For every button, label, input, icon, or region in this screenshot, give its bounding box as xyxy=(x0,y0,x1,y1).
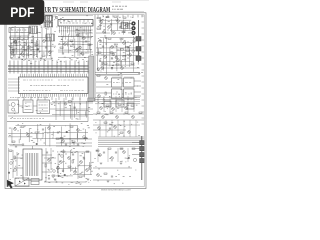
IC U1 shield box xyxy=(9,28,31,33)
resistor R21 xyxy=(123,56,126,57)
capacitor C7 xyxy=(102,46,104,47)
wire xyxy=(42,154,52,156)
junction xyxy=(48,16,49,17)
transistor Q35 xyxy=(14,128,17,131)
label U8 xyxy=(125,82,131,84)
resistor R63 xyxy=(108,148,111,149)
wire xyxy=(122,93,124,95)
junction xyxy=(106,44,107,45)
transistor Q27 xyxy=(76,49,79,52)
transistor Q50 xyxy=(98,127,101,130)
plug P1 xyxy=(136,37,141,42)
component labels xyxy=(45,151,61,182)
wire xyxy=(14,167,23,169)
junction xyxy=(108,30,109,31)
junction xyxy=(86,53,87,54)
wire section divider xyxy=(7,121,88,123)
junction xyxy=(57,66,58,67)
capacitor C6 xyxy=(119,27,121,28)
junction xyxy=(128,99,129,100)
wire row xyxy=(95,74,140,76)
bridge diode mark xyxy=(19,181,21,183)
resistor R25 xyxy=(24,50,27,51)
resistor R12 xyxy=(120,38,123,39)
junction xyxy=(83,44,84,45)
wire center drop xyxy=(63,98,65,120)
resistor R29 xyxy=(70,40,73,41)
wire vertical trunk xyxy=(94,15,96,101)
resistor R57 xyxy=(110,112,113,113)
transistor Q6 xyxy=(103,31,106,34)
wire vertical runs left xyxy=(11,28,52,58)
capacitor C32 xyxy=(48,178,50,179)
label U3 row1 xyxy=(23,79,53,81)
wire psu row xyxy=(44,157,56,159)
transistor Q14 xyxy=(129,54,132,57)
transistor Q55 xyxy=(123,151,126,154)
transistor Q33 xyxy=(125,107,128,110)
resistor R14 xyxy=(98,52,101,53)
transistor Q54 xyxy=(111,157,114,160)
IC U3 jungle / micom xyxy=(19,77,89,94)
wire xyxy=(8,115,88,117)
transistor Q16 xyxy=(121,67,124,70)
transistor Q1 xyxy=(14,40,17,43)
wire control bus xyxy=(8,65,91,71)
resistor R39 xyxy=(21,126,24,127)
wire xyxy=(58,15,93,17)
transistor Q44 xyxy=(74,171,77,174)
wire xyxy=(93,113,144,115)
transistor Q25 xyxy=(79,46,82,49)
transistor Q19 xyxy=(112,53,115,56)
inductor L1 xyxy=(46,14,52,17)
AV jack J5 xyxy=(131,31,135,35)
wire U3 bottom drops xyxy=(24,97,80,101)
capacitor C34 xyxy=(65,144,67,145)
junction xyxy=(31,66,32,67)
transistor Q17 xyxy=(115,56,118,59)
wire xyxy=(44,181,86,183)
wire xyxy=(32,146,34,149)
section caption xyxy=(10,97,50,99)
fuse F1 xyxy=(31,179,39,185)
wire xyxy=(132,148,140,150)
resistor R62 xyxy=(96,150,99,151)
wire frame-top stubs xyxy=(98,15,142,18)
transformer T1 core xyxy=(23,149,42,180)
resistor R10 xyxy=(122,32,125,33)
resistor R53 xyxy=(68,166,71,167)
resistor R37 xyxy=(131,105,134,106)
capacitor C40 xyxy=(109,128,111,129)
junction xyxy=(22,66,23,67)
wire xyxy=(134,80,141,82)
capacitor C9 xyxy=(127,47,129,48)
diode D8 xyxy=(58,175,60,177)
wire video drops xyxy=(98,96,134,112)
resistor R11 xyxy=(108,38,111,39)
capacitor C20 xyxy=(72,44,74,45)
relay K1 xyxy=(8,100,19,113)
resistor R33 xyxy=(97,75,100,76)
junction xyxy=(84,176,85,177)
connector J1 xyxy=(29,26,38,34)
junction xyxy=(128,42,129,43)
capacitor C38 xyxy=(83,158,85,159)
capacitor C37 xyxy=(62,170,64,171)
capacitor C18 xyxy=(12,52,14,53)
transistor Q42 xyxy=(68,157,71,160)
transistor Q47 xyxy=(102,116,105,119)
transistor Q51 xyxy=(114,126,117,129)
component labels xyxy=(95,114,140,136)
transistor Q7 xyxy=(113,32,116,35)
junction xyxy=(53,138,54,139)
junction xyxy=(12,55,13,56)
IC U2 IF amplifier xyxy=(58,20,93,27)
component labels xyxy=(57,149,94,183)
wire hv row xyxy=(56,142,92,144)
U3 bottom pin row xyxy=(21,94,87,97)
wire mid drop xyxy=(87,32,89,54)
transistor Q37 xyxy=(48,127,51,130)
transistor Q18 xyxy=(97,68,100,71)
junction xyxy=(104,99,105,100)
bridge diagonal xyxy=(15,178,29,186)
junction xyxy=(39,66,40,67)
resistor R27 xyxy=(10,46,13,47)
ground xyxy=(87,179,90,180)
capacitor C36 xyxy=(72,154,74,155)
junction xyxy=(48,66,49,67)
transistor Q26 xyxy=(64,43,67,46)
bottom row labels xyxy=(45,181,88,184)
plug P6 xyxy=(140,153,145,157)
junction xyxy=(114,62,115,63)
junction xyxy=(39,132,40,133)
junction xyxy=(54,105,55,106)
diode D7 xyxy=(64,174,66,176)
filter FL1 xyxy=(104,101,111,107)
resistor R17 xyxy=(104,63,107,64)
capacitor C21 xyxy=(62,53,64,54)
wire xyxy=(42,171,52,173)
AV jack J3 xyxy=(131,21,135,25)
resistor R1 xyxy=(11,52,14,53)
capacitor C2 xyxy=(22,18,24,19)
capacitor C42 xyxy=(115,152,117,153)
junction xyxy=(116,20,117,21)
resistor R60 xyxy=(104,122,107,123)
resistor R50 xyxy=(84,138,87,139)
transistor Q24 xyxy=(49,51,52,54)
IC U2 reset xyxy=(23,100,33,113)
junction xyxy=(82,143,83,144)
diode D2 xyxy=(111,67,113,69)
IC U8 audio amp xyxy=(124,78,135,87)
transistor Q39 xyxy=(77,129,80,132)
label memory xyxy=(39,104,48,106)
transistor Q34 xyxy=(64,102,67,105)
resistor R41 xyxy=(56,138,59,139)
bridge diode mark xyxy=(24,183,26,185)
wire mid row xyxy=(58,44,93,46)
wire pin fanout xyxy=(60,31,91,39)
transistor Q8 xyxy=(126,24,129,27)
component labels xyxy=(41,17,58,32)
plug P7 xyxy=(140,159,145,163)
wire center drop xyxy=(79,98,81,120)
resistor R38 xyxy=(68,101,71,102)
transistor Q40 xyxy=(48,159,51,162)
U8 pins xyxy=(125,77,133,79)
wire psu drop xyxy=(45,148,47,182)
capacitor C28 xyxy=(15,146,17,147)
transistor Q2 xyxy=(55,16,58,19)
wire mesh center xyxy=(52,101,93,119)
resistor R47 xyxy=(45,164,46,167)
junction xyxy=(84,66,85,67)
wire xyxy=(132,142,140,144)
U2 inner ticks xyxy=(60,20,88,23)
resistor R16 xyxy=(126,50,129,51)
resistor R9 xyxy=(97,28,100,29)
label U3 row1b xyxy=(58,79,84,81)
resistor R36 xyxy=(118,104,121,105)
transistor Q10 xyxy=(111,46,114,49)
resistor R56 xyxy=(97,112,100,113)
module M2 xyxy=(124,89,135,99)
transistor Q53 xyxy=(99,154,102,157)
component labels xyxy=(10,151,23,179)
plug P5 xyxy=(140,147,145,151)
diode D6 xyxy=(8,172,10,174)
component labels xyxy=(97,97,138,112)
component labels xyxy=(106,75,138,98)
component labels xyxy=(98,174,131,183)
junction xyxy=(106,114,107,115)
wire tuner drop xyxy=(51,16,53,26)
wire tuner drop xyxy=(43,16,45,28)
tuner module lower xyxy=(45,22,53,27)
wire row xyxy=(93,124,140,126)
capacitor C10 xyxy=(99,60,101,61)
capacitor C3 xyxy=(49,22,51,23)
transistor Q9 xyxy=(99,40,102,43)
wire xyxy=(128,23,131,25)
capacitor C5 xyxy=(110,24,112,25)
junction xyxy=(10,69,11,70)
transistor Q23 xyxy=(21,53,24,56)
fuse line xyxy=(31,181,39,183)
wire psu drop xyxy=(50,148,52,170)
transistor Q4 xyxy=(108,26,111,29)
capacitor C31 xyxy=(61,155,64,158)
resistor R61 xyxy=(120,132,123,133)
relay coil xyxy=(11,103,15,107)
memory ic pin marks xyxy=(39,102,49,111)
resistor R66 xyxy=(104,173,107,174)
capacitor C23 xyxy=(42,129,44,130)
capacitor C26 xyxy=(83,136,86,139)
resistor R5 xyxy=(97,18,100,19)
transformer T2 driver xyxy=(46,34,55,41)
junction xyxy=(100,20,101,21)
mains plug symbol xyxy=(7,180,14,188)
junction xyxy=(116,101,117,102)
resistor R20 xyxy=(121,49,124,50)
resistor R4 xyxy=(42,22,45,23)
capacitor C17 xyxy=(45,47,47,48)
junction xyxy=(66,66,67,67)
component labels xyxy=(12,17,53,25)
component labels xyxy=(97,16,133,35)
resistor R46 xyxy=(52,175,55,176)
capacitor C35 xyxy=(77,144,79,145)
transistor Q36 xyxy=(27,134,30,137)
resistor R28 xyxy=(76,35,79,36)
label reset xyxy=(25,105,32,107)
capacitor C11 xyxy=(111,58,113,59)
resistor R59 xyxy=(139,112,142,113)
resistor R26 xyxy=(42,55,45,56)
component labels xyxy=(9,27,41,57)
transistor Q11 xyxy=(123,42,126,45)
IC U3 memory xyxy=(37,100,50,114)
diode D9 xyxy=(128,157,130,159)
resistor R40 xyxy=(35,132,38,133)
component labels xyxy=(98,38,143,75)
resistor R35 xyxy=(106,105,109,106)
connector J2 xyxy=(121,23,128,29)
wire xyxy=(14,157,23,159)
junction xyxy=(13,50,14,51)
wire xyxy=(96,86,112,88)
trap X1 xyxy=(127,103,134,109)
transistor Q5 xyxy=(117,20,120,23)
wire xyxy=(8,148,10,180)
diode D1 xyxy=(12,49,14,51)
junction xyxy=(61,69,62,70)
capacitor C25 xyxy=(22,144,24,145)
model number label xyxy=(112,5,127,7)
wire mesh bottom-center xyxy=(56,149,92,179)
resistor R52 xyxy=(86,151,89,152)
capacitor C15 xyxy=(132,50,135,53)
wire antenna input xyxy=(8,15,56,17)
tuner module xyxy=(45,16,53,22)
wire mesh top-left xyxy=(9,40,37,57)
transformer T1 windings xyxy=(26,153,38,176)
resistor R65 xyxy=(132,148,135,149)
plug P2 xyxy=(136,47,141,52)
junction xyxy=(78,36,79,37)
right edge stubs xyxy=(142,16,145,124)
junction xyxy=(74,144,75,145)
capacitor C41 xyxy=(103,152,105,153)
transistor Q41 xyxy=(57,167,60,170)
transistor Q30 xyxy=(105,77,108,80)
junction xyxy=(68,40,69,41)
component labels xyxy=(59,34,94,60)
wire hv row xyxy=(56,138,92,140)
wire right trunk xyxy=(138,20,140,62)
resistor R23 xyxy=(17,38,20,39)
resistor R42 xyxy=(70,126,73,127)
capacitor C29 xyxy=(14,169,17,172)
transistor Q15 xyxy=(101,67,104,70)
wire center drop xyxy=(55,98,57,120)
M1 pins xyxy=(113,88,121,90)
resistor R19 xyxy=(131,63,134,64)
junction xyxy=(118,50,119,51)
label U7 xyxy=(113,82,120,84)
wire center row xyxy=(50,108,93,110)
component labels xyxy=(94,149,136,171)
ground xyxy=(100,163,103,164)
junction xyxy=(25,126,26,127)
junction xyxy=(14,66,15,67)
label M1 xyxy=(113,93,120,95)
resistor R6 xyxy=(106,17,109,18)
junction xyxy=(125,30,126,31)
wire mid row xyxy=(75,32,93,34)
resistor R51 xyxy=(62,151,65,152)
wire xyxy=(97,148,99,162)
wire tuner drop xyxy=(47,16,49,30)
transistor Q20 xyxy=(14,41,17,44)
transistor Q31 xyxy=(100,107,103,110)
junction xyxy=(47,38,48,39)
wire mesh power xyxy=(8,123,88,146)
wire xyxy=(134,91,141,93)
transistor Q21 xyxy=(28,46,31,49)
ground xyxy=(120,163,123,164)
junction xyxy=(98,70,99,71)
junction xyxy=(134,38,135,39)
wire xyxy=(19,105,24,107)
relay contact xyxy=(12,108,15,111)
wire bus risers xyxy=(10,61,88,74)
wire xyxy=(127,148,129,162)
module M1 xyxy=(112,89,123,99)
resistor R44 xyxy=(9,150,12,151)
transistor Q43 xyxy=(80,161,83,164)
resistor R32 xyxy=(88,44,91,45)
label U3 row3b xyxy=(60,90,84,92)
resistor R45 xyxy=(14,156,15,159)
resistor R2 xyxy=(14,18,17,19)
IC U1 xyxy=(10,36,28,39)
capacitor C33 xyxy=(53,170,56,173)
U2 pin row xyxy=(59,26,91,31)
reset ic pin marks xyxy=(25,102,32,110)
chassis label xyxy=(112,8,123,10)
junction xyxy=(33,49,34,50)
wire xyxy=(96,92,112,94)
resistor R55 xyxy=(72,160,73,163)
resistor R13 xyxy=(133,40,136,41)
ground xyxy=(54,179,57,180)
label U1 xyxy=(11,29,26,31)
wire mid row xyxy=(58,36,93,38)
wire xyxy=(117,148,119,162)
resistor R15 xyxy=(110,52,113,53)
bridge rectifier BR1 xyxy=(15,178,29,186)
wire mid row xyxy=(58,51,93,53)
svg-text:www.tvschematics.com: www.tvschematics.com xyxy=(101,188,131,192)
